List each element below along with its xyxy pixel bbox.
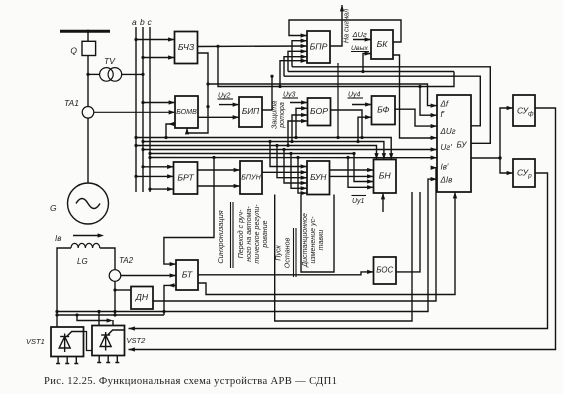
block БРТ [174,162,198,194]
svg-text:ΔIв: ΔIв [440,176,453,185]
wire БОМВ aux out [166,124,175,138]
current transformer TA2 [109,256,133,281]
block БПР [307,31,330,63]
block БЧЗ [175,32,198,64]
generator G [50,183,109,224]
wire TA1 secondary to БОМВ [94,111,175,113]
svg-text:рование: рование [261,220,269,248]
wire bus line 5 [150,153,354,155]
block БН [374,160,397,194]
wire Uвых into БК [363,54,371,72]
block БИП [239,97,262,127]
svg-text:На сигнал: На сигнал [341,9,350,43]
wire rotor prot 3 [288,121,308,146]
wire Uy2 into БИП [219,104,239,106]
wire БТ pulse down [164,285,176,315]
svg-text:Δf: Δf [440,100,449,109]
wire БУН to БН in2 [330,175,374,177]
block БОР [308,98,331,126]
block БФ [372,96,396,125]
svg-text:БПУН: БПУН [241,173,261,181]
wire Uy4 into БФ [352,104,372,106]
svg-text:Переход с руч-: Переход с руч- [237,209,245,258]
wire bus drop БУН in1 [270,142,307,167]
block СУф [513,95,535,126]
wire rotor prot 1 [296,108,308,137]
wire TV to phase b [122,73,143,75]
svg-text:БТ: БТ [182,269,193,279]
wire ΔUг into БК [353,39,371,41]
wire СУф to VST2 [129,108,556,350]
wire VST1 gate to VST2 [84,332,93,351]
wire bus drop БУН in6 [298,158,307,194]
svg-text:тавки: тавки [317,230,325,251]
svg-text:VST2: VST2 [127,336,147,345]
wire phase b [142,27,144,192]
wire bus line 3 to БН top [136,146,377,160]
wire СУр to VST2 [129,173,548,329]
node TV tap [86,73,89,76]
svg-text:Iв′: Iв′ [441,163,449,172]
wire БК feedback to БПР [289,20,401,42]
wire bus drop БУН in5 [291,154,307,189]
wire БПУН to БУН [262,171,307,173]
wire БТ to БУ bottom [198,192,455,295]
wire field circuit link [57,314,164,316]
wire to БПР in2 [292,41,307,67]
svg-text:ДН: ДН [135,292,149,302]
wire remote setting bracket [301,195,334,273]
wire БЧЗ to БПР [198,45,308,48]
svg-text:Синхронизация: Синхронизация [216,210,225,263]
svg-text:Рис. 12.25. Функциональная схе: Рис. 12.25. Функциональная схема устройс… [44,376,337,387]
transformer TV [100,56,122,81]
wire bus to Q [87,31,89,41]
svg-text:Uу1: Uу1 [352,198,365,205]
svg-text:БФ: БФ [377,105,389,115]
svg-text:Пуск: Пуск [274,245,282,261]
wire bus line 4 to БУ Uг [143,149,437,151]
wire bus drop БН in3 [354,154,374,182]
wire БОР out to bus [331,110,363,138]
wire БЧЗ trunk down to БОМВ feedback [187,53,208,133]
wire start-stop line to БУ bottom [275,192,412,321]
svg-text:ротора: ротора [278,102,286,129]
wire c to БРТ [150,188,174,190]
svg-text:Останов: Останов [283,238,291,269]
svg-text:Uг′: Uг′ [441,143,453,152]
wire TA2 down [114,281,116,315]
svg-text:ного на автома-: ного на автома- [245,206,253,262]
svg-text:Iв: Iв [55,234,61,243]
wire bus drop БН in4 [348,158,374,188]
svg-text:БОР: БОР [310,106,328,116]
svg-text:БК: БК [377,39,389,49]
svg-text:VST1: VST1 [26,337,45,346]
wire f' feeder to БУ [420,87,437,116]
svg-text:БН: БН [379,171,392,181]
wire Δf feeder to БУ [208,84,437,106]
wire TV left lead [88,73,100,75]
svg-text:TA2: TA2 [119,256,134,265]
block БУ [437,95,471,192]
wire БУ output [471,157,500,159]
wire field feedback to БУ ΔIв [57,179,437,311]
wire БФ to БУ ΔUг [395,109,437,126]
block ДН [131,287,153,310]
block СУр [513,159,535,187]
svg-text:b: b [140,17,145,27]
wire БОМВ to БИП [198,116,239,118]
wire БОС up to БУ bottom [396,192,420,272]
wire Uy1 into БН bottom [382,193,384,212]
svg-text:TV: TV [104,56,116,66]
thyristor unit VST1 [26,327,84,364]
current transformer TA1 [64,98,94,118]
svg-text:БУ: БУ [457,141,468,150]
wire БТ to БОС [198,272,374,275]
block БОМВ [175,96,198,128]
wire mid line 2 to БУ right [284,76,480,126]
wire LG left to VST1 [57,248,71,327]
wire БК down to БУ [393,55,437,138]
wire LG right to TA2 [100,248,115,270]
svg-text:БРТ: БРТ [177,172,194,182]
svg-text:БУН: БУН [310,172,326,182]
svg-text:f′: f′ [441,110,445,119]
wire БУН to БН in1 [330,169,374,171]
wire to БПР in6 [280,61,307,87]
breaker Q [70,41,95,55]
svg-text:БИП: БИП [242,106,260,116]
svg-text:LG: LG [77,257,88,266]
wire TA2 to БТ [121,275,176,277]
block БТ [176,260,198,290]
label underline [351,51,369,53]
wire upper line to БУ right [292,67,490,144]
wire into БФ in2 [358,117,372,141]
wire bus line 6 to БУ [150,157,437,159]
wire Q to TA1 [87,56,89,107]
svg-text:ΔUг: ΔUг [440,127,456,136]
wire stub to VST2 [98,312,100,326]
svg-text:Q: Q [70,46,77,56]
wire TA1 to G [87,118,89,183]
wire Iв arrow [73,235,101,237]
label rule [230,202,232,268]
wire b to БЧЗ [143,57,175,59]
svg-text:G: G [50,203,57,213]
wire f loop riser [218,46,454,86]
wire rotor prot 2 [292,115,308,142]
svg-text:изменение ус-: изменение ус- [309,216,317,264]
label rule [293,228,295,277]
svg-text:БПР: БПР [310,41,328,51]
svg-text:тическое регули-: тическое регули- [253,204,261,264]
wire to БПР in5 [284,57,307,76]
wire mid line [288,71,454,73]
block БПУН [240,161,262,194]
wire ДН to БУ Iв [153,168,437,301]
wire Uy3 into БОР [290,102,308,104]
wire bus line 2 to БН top [143,142,384,160]
wire bus drop БУН in3 [277,146,307,178]
wire БПР bottom drop [337,63,339,138]
thyristor unit VST2 [92,326,146,363]
inductor LG [71,243,100,248]
block БК [371,30,393,59]
wire to ДН [115,289,131,291]
wire БРТ to БПУН in2 [198,185,241,187]
wire bus line 1 to БН top [136,138,391,160]
wire phase c [149,27,151,192]
block БОС [374,257,397,284]
wire БИП up to bus [262,76,272,110]
wire БПР output На сигнал [330,5,342,46]
busbar [60,30,110,33]
svg-text:БЧЗ: БЧЗ [178,42,195,52]
wire БРТ to БПУН in1 [198,169,241,171]
wire a to БРТ [136,175,174,177]
wire bus drop БУН in4 [284,150,307,184]
wire to БПР in4 [288,51,307,71]
wire to СУр [500,158,513,173]
wire VST1 to VST2 link [77,315,110,321]
svg-text:Дистанционное: Дистанционное [301,213,309,268]
wire stub [112,320,114,326]
block БУН [307,161,330,195]
wire b to БОМВ [143,102,175,104]
wire phase a [135,27,137,192]
node b/TV junction [141,73,144,76]
wire synchronization to БТ [164,158,214,265]
wire to СУф [500,108,513,158]
wire a to БЧЗ [136,39,175,41]
svg-text:БОС: БОС [376,266,393,275]
svg-text:TA1: TA1 [64,98,79,108]
wire b to БРТ [143,166,174,168]
svg-text:БОМВ: БОМВ [176,108,197,116]
svg-text:a: a [132,17,137,27]
